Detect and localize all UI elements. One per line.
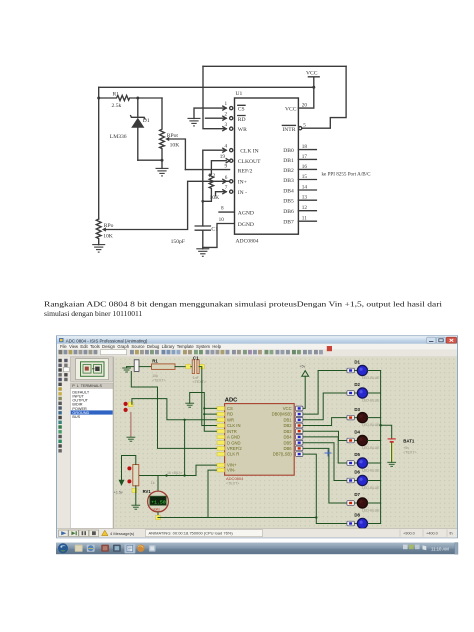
logic state squares at IC (296, 406, 303, 411)
svg-text:Rangkaian ADC 0804 8 bit denga: Rangkaian ADC 0804 8 bit dengan mengguna… (44, 299, 442, 308)
pin numbers right (302, 102, 308, 221)
svg-text:2.5k: 2.5k (112, 103, 122, 109)
schematic canvas (114, 357, 458, 529)
voltmeter (157, 476, 159, 491)
svg-text:A GND: A GND (227, 435, 240, 440)
RV1 bottom to ground (135, 486, 137, 505)
svg-text:DB7: DB7 (283, 220, 294, 226)
svg-text:IN -: IN - (238, 190, 247, 196)
svg-text:DB1: DB1 (283, 417, 292, 422)
svg-text:VREF/2: VREF/2 (227, 446, 242, 451)
svg-text:CS: CS (227, 406, 233, 411)
ground top-left (126, 367, 128, 368)
svg-text:11:10 AM: 11:10 AM (431, 546, 449, 551)
svg-text:ADC: ADC (225, 397, 238, 403)
start orb (58, 543, 68, 553)
svg-text:LED-BLUE: LED-BLUE (362, 376, 380, 380)
wire DB2 to D3 (303, 418, 357, 426)
svg-text:VIN-: VIN- (227, 468, 236, 473)
ground below RPot/D1 (161, 160, 163, 168)
LED D5 (357, 457, 368, 468)
wire rail2 top (INTR loop) (203, 65, 346, 67)
LED D2 (357, 387, 368, 398)
resistor R2 10K (203, 161, 226, 202)
svg-text:2: 2 (225, 111, 228, 117)
svg-text:DGND: DGND (238, 222, 254, 228)
svg-text:DB5: DB5 (283, 440, 292, 445)
svg-text:D8: D8 (354, 513, 360, 518)
svg-text:LED-BLUE: LED-BLUE (362, 509, 380, 513)
svg-text:DB6: DB6 (283, 446, 292, 451)
svg-text:10K: 10K (170, 142, 180, 148)
svg-text:simulasi dengan biner 10110011: simulasi dengan biner 10110011 (44, 309, 143, 318)
pin arrows and circles (left inputs) (223, 106, 233, 194)
power VCC symbol (298, 77, 319, 108)
svg-text:WR: WR (227, 417, 234, 422)
battery BAT1 (379, 424, 381, 426)
svg-text:10k: 10k (152, 374, 158, 378)
title bar (0, 0, 1, 1)
svg-text:File View Edit Tools Desig: File View Edit Tools Design Graph Source… (60, 344, 222, 349)
svg-text:IN+: IN+ (238, 180, 247, 186)
svg-text:R1: R1 (152, 358, 158, 363)
svg-text:LED-BLUE: LED-BLUE (362, 423, 380, 427)
caption text (44, 299, 442, 318)
svg-text:4 Message(s): 4 Message(s) (110, 531, 135, 536)
wire DB3 to D4 (303, 431, 357, 440)
svg-text:Volts: Volts (153, 507, 161, 511)
wire DB7 to D8 (303, 454, 357, 523)
svg-text:<TEXT>: <TEXT> (403, 451, 416, 455)
wire DB1 to D2 (303, 393, 357, 420)
wire top rail VCC to R1 branch (99, 86, 314, 88)
svg-text:CLK IN: CLK IN (240, 149, 259, 155)
LED D8 (357, 518, 368, 529)
ground below RPo (92, 245, 105, 253)
svg-text:D1: D1 (143, 118, 150, 124)
node junction R1 left (97, 97, 100, 100)
svg-text:DB6: DB6 (283, 209, 294, 215)
wire IN- stub (216, 192, 227, 196)
svg-text:LED-BLUE: LED-BLUE (362, 469, 380, 473)
svg-text:BAT1: BAT1 (403, 438, 415, 443)
wire terminal to VREF/2 (131, 372, 217, 449)
svg-text:D1: D1 (354, 360, 360, 365)
pin numbers left (219, 101, 228, 223)
svg-text:3: 3 (225, 122, 228, 128)
ground mid with CS/RD/INTR tie (185, 403, 194, 407)
svg-text:LED-BLUE: LED-BLUE (362, 486, 380, 490)
svg-text:BUS: BUS (72, 415, 80, 419)
wire C1 down to CLK IN (199, 367, 217, 426)
mouse crosshair (325, 450, 332, 457)
svg-text:C1: C1 (193, 356, 199, 361)
power +5v arrow (302, 371, 309, 377)
wire DB4 to D5 (303, 437, 357, 463)
wire R1 to C1 (175, 366, 192, 368)
svg-text:DB2: DB2 (283, 168, 294, 174)
svg-text:LED-BLUE: LED-BLUE (362, 399, 380, 403)
svg-text:D2: D2 (354, 382, 360, 387)
wire VIN- down to bottom rail (208, 470, 217, 517)
svg-text:RPo: RPo (104, 223, 114, 229)
svg-text:ADC0804: ADC0804 (226, 476, 244, 481)
svg-text:ke PPI 8255 Port A/B/C: ke PPI 8255 Port A/B/C (322, 172, 371, 178)
svg-text:9: 9 (225, 163, 228, 169)
menu bar (57, 344, 457, 350)
svg-text:D GND: D GND (227, 440, 241, 445)
windows taskbar (56, 543, 458, 555)
svg-text:10: 10 (219, 217, 225, 223)
resistor R1 (99, 95, 162, 100)
wire WR from rail2 (203, 66, 226, 128)
LED D7 (357, 497, 368, 508)
svg-text:ADC0804: ADC0804 (236, 238, 259, 244)
IC right pin names (272, 406, 293, 457)
analog wiper net (139, 475, 196, 477)
IC left pin names (227, 406, 242, 473)
svg-text:+400.0: +400.0 (426, 532, 438, 536)
svg-text:5: 5 (303, 123, 306, 129)
svg-text:DB0: DB0 (283, 148, 294, 154)
wire INTR to rail2 (299, 127, 302, 130)
svg-text:VCC: VCC (283, 406, 292, 411)
svg-text:DB3: DB3 (283, 429, 292, 434)
svg-text:<TEXT>: <TEXT> (226, 481, 239, 485)
svg-text:C1: C1 (211, 226, 218, 232)
svg-text:7: 7 (225, 185, 228, 191)
svg-text:10K: 10K (103, 234, 113, 240)
svg-text:DB7(LSB): DB7(LSB) (273, 452, 292, 457)
svg-text:<TEXT>: <TEXT> (193, 380, 206, 384)
node junction D1 top (136, 97, 139, 100)
svg-text:D4: D4 (354, 430, 360, 435)
diode D1 LM336 (137, 98, 139, 160)
LED state squares (347, 368, 354, 373)
wire to R1 (139, 366, 152, 368)
wire WR node down to analog net (184, 420, 186, 476)
wire CLK IN to C1 (203, 150, 226, 226)
window buttons (427, 337, 436, 343)
LED bus (368, 371, 381, 524)
svg-text:20: 20 (302, 102, 308, 108)
svg-text:CLK IN: CLK IN (227, 423, 241, 428)
wire left vertical rail (98, 87, 100, 219)
svg-text:R1: R1 (113, 92, 120, 98)
svg-text:DB3: DB3 (283, 178, 294, 184)
svg-text:DB2: DB2 (283, 423, 292, 428)
wire DB0-DB7 stubs (298, 150, 316, 222)
svg-text:+5v: +5v (403, 446, 409, 450)
svg-text:ANIMATING: 00:00:18.750000 (CP: ANIMATING: 00:00:18.750000 (CPU load 76%… (149, 531, 234, 536)
svg-text:8: 8 (221, 206, 224, 212)
wire REF/2 (185, 169, 229, 171)
LED D6 (357, 475, 368, 486)
svg-text:D7: D7 (354, 492, 360, 497)
ground for CS pin (188, 118, 201, 126)
potentiometer RPo 10K (left bottom) (96, 219, 101, 245)
object selector header (71, 383, 114, 388)
svg-text:150pF: 150pF (171, 239, 185, 245)
svg-text:D5: D5 (354, 452, 360, 457)
svg-text:ADC 0804 - ISIS Professional (: ADC 0804 - ISIS Professional (Animating) (66, 338, 148, 343)
logic switch SW1 (128, 402, 133, 407)
wire DB5 to D6 (303, 443, 357, 481)
IC U1 ADC0804 (225, 404, 295, 476)
svg-text:DB0(MSB): DB0(MSB) (272, 412, 293, 417)
svg-text:INTR: INTR (282, 127, 295, 133)
wire DB0 to D1 (303, 371, 357, 415)
svg-text:RD: RD (227, 412, 233, 417)
svg-text:P L TERMINALS: P L TERMINALS (72, 384, 102, 388)
svg-text:LED-BLUE: LED-BLUE (362, 446, 380, 450)
svg-text:CLK R: CLK R (227, 452, 239, 457)
power terminal +1.5v (119, 480, 124, 485)
svg-text:CS: CS (238, 107, 245, 113)
voltmeter bottom rail (157, 512, 159, 518)
svg-text:10K: 10K (210, 195, 220, 201)
svg-text:RPot: RPot (167, 133, 179, 139)
input terminal J1 (134, 360, 139, 372)
LED D4 (357, 435, 368, 446)
ground below C1 (196, 249, 209, 256)
svg-text:LM336: LM336 (110, 134, 127, 140)
svg-text:DB5: DB5 (283, 199, 294, 205)
status bar (57, 529, 457, 538)
switch lower pin to ground (130, 412, 132, 437)
svg-text:+1.5v: +1.5v (114, 491, 123, 495)
IC pin labels left column (238, 107, 261, 228)
svg-text:DB4: DB4 (283, 435, 292, 440)
LED D1 (357, 365, 368, 376)
svg-text:1: 1 (225, 101, 228, 107)
preview panel (71, 357, 114, 382)
svg-text:+5v: +5v (299, 365, 305, 369)
svg-text:4: 4 (225, 144, 228, 150)
taskbar icons (75, 545, 83, 552)
wire gnd to terminal (127, 366, 135, 368)
svg-text:th: th (450, 532, 453, 536)
object selector list (71, 388, 114, 528)
svg-text:DB4: DB4 (283, 188, 294, 194)
svg-text:+1.50: +1.50 (151, 500, 166, 506)
wire DB6 to D7 (303, 448, 357, 503)
wire VIN+ (196, 465, 217, 475)
system tray (403, 545, 408, 550)
potentiometer RV1 (133, 465, 139, 486)
svg-text:19: 19 (220, 154, 226, 160)
svg-text:REF/2: REF/2 (238, 169, 253, 175)
svg-text:INTR: INTR (227, 429, 237, 434)
svg-text:R2: R2 (209, 173, 216, 179)
capacitor C1 150pF (195, 226, 210, 230)
svg-text:AGND: AGND (238, 211, 254, 217)
svg-text:<TEXT>: <TEXT> (152, 379, 165, 383)
toolbar row (57, 349, 457, 356)
svg-text:DB1: DB1 (283, 158, 294, 164)
LED D3 (357, 412, 368, 423)
svg-text:VCC: VCC (306, 71, 318, 77)
svg-text:CLKOUT: CLKOUT (238, 159, 261, 165)
svg-text:1k <8(L)>: 1k <8(L)> (167, 471, 182, 475)
wire DGND to ground (203, 224, 235, 248)
wire RD stub (206, 117, 227, 119)
op IC U1 ADC0804 body (235, 98, 299, 234)
IC pin labels right column (282, 107, 296, 226)
svg-text:U1: U1 (236, 91, 243, 97)
svg-text:RV1: RV1 (143, 489, 152, 494)
resistor R1 10k (152, 364, 176, 370)
svg-text:WR: WR (238, 127, 247, 133)
svg-text:VCC: VCC (285, 107, 297, 113)
capacitor C1 (186, 364, 191, 369)
svg-text:D3: D3 (354, 407, 360, 412)
window frame (57, 336, 458, 538)
left icon toolbar (57, 357, 71, 529)
wire D1 bottom to pot (138, 159, 162, 161)
yellow pin stubs (217, 407, 225, 411)
svg-text:+900.0: +900.0 (403, 532, 415, 536)
wire AGND stub (219, 211, 235, 213)
svg-text:D6: D6 (354, 470, 360, 475)
svg-text:1k: 1k (151, 481, 155, 485)
potentiometer RPot 10K (160, 98, 165, 160)
svg-text:RD: RD (238, 117, 246, 123)
svg-text:6: 6 (225, 175, 228, 181)
